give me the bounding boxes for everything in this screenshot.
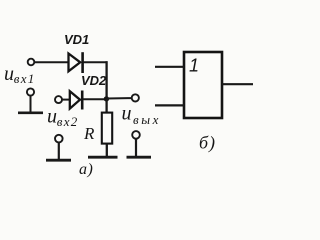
gate input wire 1 <box>155 66 184 68</box>
gate input wire 2 <box>155 104 184 106</box>
ground terminal output <box>127 131 152 157</box>
output terminal <box>132 94 139 101</box>
resistor R <box>102 113 112 144</box>
svg-text:б): б) <box>199 133 216 154</box>
svg-text:а): а) <box>79 161 93 178</box>
diode VD2 <box>70 91 82 110</box>
svg-text:вх1: вх1 <box>14 71 36 86</box>
svg-text:R: R <box>83 124 95 143</box>
ground terminal input 1 <box>18 88 43 112</box>
label U_vx1 <box>4 63 36 86</box>
svg-text:u: u <box>4 63 14 85</box>
svg-text:вых: вых <box>133 112 161 127</box>
wire resistor to ground <box>106 144 108 157</box>
wire VD2 cathode to node <box>83 98 107 100</box>
svg-text:u: u <box>122 103 132 125</box>
logic gate U1 OR symbol <box>184 52 222 118</box>
wire node to resistor <box>105 99 107 113</box>
svg-text:u: u <box>47 105 57 127</box>
svg-text:VD2: VD2 <box>81 73 107 88</box>
svg-text:вх2: вх2 <box>57 114 79 129</box>
svg-text:VD1: VD1 <box>64 32 89 47</box>
wire input2 to VD2 anode <box>62 99 70 101</box>
input terminal 1 <box>28 59 35 66</box>
label U_vx2 <box>47 105 79 129</box>
wire VD1 cathode to corner <box>84 61 108 63</box>
wire input1 to VD1 anode <box>35 61 69 63</box>
node junction <box>104 96 109 101</box>
diode VD1 <box>69 52 83 73</box>
ground resistor <box>88 156 118 159</box>
ground terminal input 2 <box>46 135 71 160</box>
wire node to output terminal <box>107 97 132 99</box>
input terminal 2 <box>55 96 62 103</box>
gate output wire <box>222 83 253 85</box>
wire corner down to node <box>105 61 107 99</box>
label U_vyx <box>122 103 162 127</box>
svg-text:1: 1 <box>189 56 199 76</box>
